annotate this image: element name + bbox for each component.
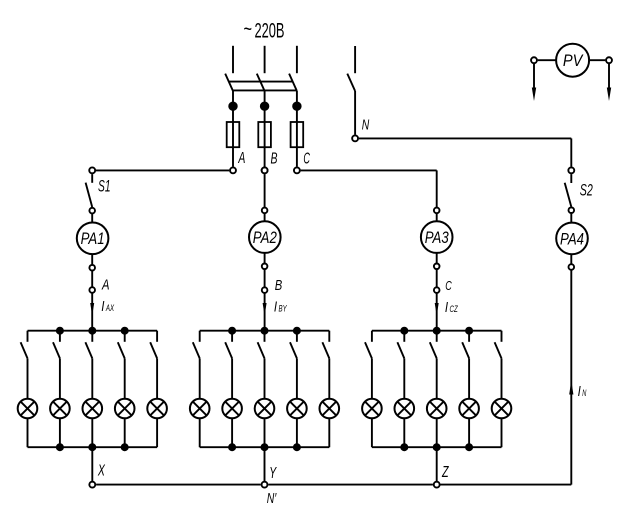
svg-text:PA3: PA3 xyxy=(425,229,449,247)
svg-text:PA2: PA2 xyxy=(253,229,277,247)
svg-text:I: I xyxy=(274,299,277,316)
svg-text:CZ: CZ xyxy=(450,304,459,314)
svg-text:N: N xyxy=(582,388,587,398)
svg-text:Y: Y xyxy=(269,465,277,482)
svg-text:I: I xyxy=(101,298,104,315)
svg-text:PA1: PA1 xyxy=(81,230,105,248)
svg-text:S1: S1 xyxy=(98,177,111,195)
svg-text:C: C xyxy=(303,150,310,167)
svg-text:X: X xyxy=(97,463,106,480)
svg-text:220В: 220В xyxy=(255,20,285,43)
svg-text:S2: S2 xyxy=(580,181,593,199)
svg-text:A: A xyxy=(238,150,246,167)
svg-text:I: I xyxy=(578,383,581,400)
svg-text:PV: PV xyxy=(563,52,584,70)
svg-text:A: A xyxy=(101,276,109,293)
svg-text:AX: AX xyxy=(105,303,115,313)
svg-text:C: C xyxy=(445,278,452,293)
svg-text:I: I xyxy=(445,299,448,316)
svg-text:B: B xyxy=(275,277,283,294)
svg-text:~: ~ xyxy=(244,18,253,41)
svg-text:B: B xyxy=(271,151,278,168)
svg-text:PA4: PA4 xyxy=(560,230,584,248)
svg-text:N′: N′ xyxy=(267,491,277,507)
svg-text:Z: Z xyxy=(441,464,449,481)
svg-text:BY: BY xyxy=(279,304,288,314)
svg-text:N: N xyxy=(362,118,370,134)
